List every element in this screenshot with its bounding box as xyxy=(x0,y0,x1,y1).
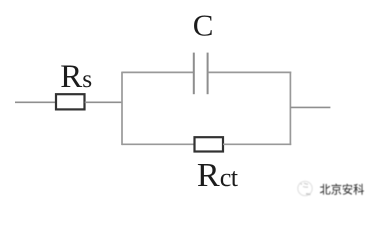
node A: left junction, vertical branch wire xyxy=(121,72,123,146)
svg-text:北京安科: 北京安科 xyxy=(320,183,365,197)
wire: top branch left (node A to capacitor) xyxy=(122,71,194,73)
wire: bottom branch right (Rct to node B) xyxy=(223,143,291,145)
capacitor C (two plates) xyxy=(194,53,208,95)
wire: top branch right (capacitor to node B) xyxy=(208,71,292,73)
wire: input lead to Rs xyxy=(15,101,56,103)
resistor R_s xyxy=(56,94,85,109)
wire: Rs to node A xyxy=(85,101,122,103)
node B: right junction, vertical branch wire xyxy=(289,72,291,146)
wire: output lead from node B xyxy=(290,106,330,108)
resistor R_ct xyxy=(195,137,224,151)
svg-text:Rct: Rct xyxy=(197,157,239,194)
svg-text:C: C xyxy=(193,8,214,43)
svg-text:Rs: Rs xyxy=(60,59,92,95)
wire: bottom branch left (node A to Rct) xyxy=(122,143,195,145)
watermark logo (decorative circular emblem) xyxy=(298,181,312,195)
